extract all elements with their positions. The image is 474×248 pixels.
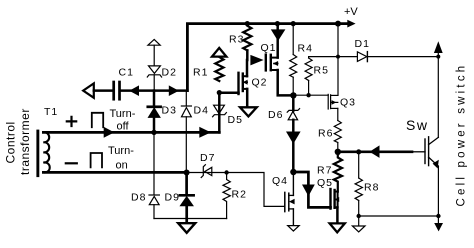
- resistor R5: [305, 58, 312, 81]
- node main mid: [290, 92, 296, 98]
- pulse glyph turn-on: [91, 153, 102, 167]
- resistor R8: [355, 178, 362, 201]
- node D6 bottom junction: [290, 169, 296, 175]
- +V arrow: [347, 20, 355, 28]
- diode D1: [357, 52, 366, 62]
- node B R8 top: [356, 149, 361, 154]
- svg-text:on: on: [116, 160, 128, 172]
- wire Q3 source to R6: [337, 108, 339, 120]
- ground hollow arrow below Q5: [330, 223, 345, 232]
- transformer T1 core: [36, 130, 39, 178]
- wire Q5 source down: [336, 207, 339, 223]
- node D1 junction: [336, 55, 340, 59]
- wire R3 to arrow node: [246, 50, 249, 60]
- wire plus line: [43, 131, 219, 134]
- ground hollow arrow below Q2: [240, 107, 257, 116]
- flow arrow down D6 chain: [286, 132, 301, 144]
- wire D8 column: [153, 132, 155, 194]
- node A: [335, 149, 341, 155]
- svg-text:R1: R1: [193, 67, 208, 79]
- IGBT Sw: [424, 139, 426, 164]
- wire +V column down: [337, 24, 339, 96]
- wire D1 line: [338, 56, 438, 58]
- wire D4 down to minus node: [185, 117, 187, 173]
- svg-text:Q5: Q5: [317, 177, 333, 189]
- flow arrow right on C1 line: [169, 85, 179, 96]
- node minus line junction: [184, 170, 190, 176]
- svg-text:Q4: Q4: [272, 175, 288, 187]
- svg-text:Turn-: Turn-: [108, 145, 134, 157]
- wire Q2 drain up: [246, 60, 249, 76]
- node R8 bottom: [357, 214, 361, 218]
- wire R5 to gate line: [308, 81, 310, 96]
- wire R8 column: [358, 152, 360, 178]
- svg-text:D5: D5: [228, 114, 243, 126]
- wire R5 top: [309, 57, 338, 58]
- svg-text:C1: C1: [119, 67, 134, 79]
- diode D6 chain from node mid: [292, 95, 295, 110]
- flow arrow down Q1 drain: [271, 29, 286, 41]
- flow arrow right Q1 gate: [250, 55, 263, 66]
- node R5 bottom: [306, 93, 310, 97]
- transistor Q3: [327, 94, 329, 109]
- wire D9 down: [185, 206, 188, 223]
- pulse glyph turn-off: [92, 113, 103, 127]
- transistor Q4: [284, 192, 286, 211]
- flow arrow left IGBT gate: [370, 145, 380, 158]
- resistor R4: [290, 55, 297, 78]
- svg-text:D2: D2: [162, 67, 177, 79]
- svg-text:Turn-: Turn-: [110, 108, 136, 120]
- terminal up arrow right: [437, 52, 439, 57]
- terminal hollow up arrow above D2: [148, 39, 160, 45]
- node R2 top: [224, 170, 228, 174]
- svg-text:Q1: Q1: [261, 42, 277, 54]
- transistor Q1: [265, 55, 267, 71]
- svg-text:D8: D8: [131, 192, 146, 204]
- svg-text:D9: D9: [165, 192, 180, 204]
- svg-text:+V: +V: [344, 6, 358, 18]
- wire R8 down: [358, 201, 360, 226]
- wire D2 to D3: [153, 75, 155, 91]
- label Control transformer: [4, 108, 33, 175]
- capacitor C1: [112, 82, 115, 99]
- wire rail to R4: [292, 24, 294, 55]
- label Turn-off: [110, 108, 136, 133]
- svg-text:D1: D1: [355, 38, 370, 50]
- svg-text:Control: Control: [4, 121, 18, 163]
- resistor R7: [334, 155, 342, 192]
- label Turn-on: [108, 145, 134, 172]
- wire D8 down: [153, 205, 155, 219]
- flow arrow left on C1 line: [129, 85, 139, 96]
- transistor Q2: [237, 73, 239, 94]
- terminal hollow up arrow above R1: [212, 48, 226, 57]
- node D1 right: [436, 55, 440, 59]
- wire minus line: [43, 171, 186, 174]
- svg-text:R6: R6: [318, 128, 333, 140]
- wire R6 to node A: [337, 143, 339, 152]
- diode D7 zener: [205, 167, 212, 175]
- wire gate feed IGBT: [338, 150, 412, 153]
- diode D3: [148, 105, 161, 108]
- label plus: [67, 117, 76, 126]
- wire top rail: [187, 24, 347, 91]
- terminal hollow left arrow: [83, 83, 94, 97]
- wire R4 to node: [292, 77, 294, 95]
- svg-text:R2: R2: [232, 189, 247, 201]
- resistor R3: [243, 24, 251, 51]
- node R1 bottom: [217, 90, 222, 95]
- diode D8: [149, 194, 159, 196]
- wire Q2 source down: [246, 89, 249, 107]
- resistor R6: [334, 121, 341, 143]
- wire C1 line: [94, 89, 113, 92]
- svg-text:Q2: Q2: [252, 77, 268, 89]
- node rail Q1 column: [275, 21, 280, 26]
- wire Q4 drain: [292, 172, 294, 195]
- node rail R4: [291, 21, 296, 26]
- svg-text:D7: D7: [200, 152, 215, 164]
- node rail at +V column: [335, 21, 341, 27]
- wire bottom right return: [359, 215, 439, 217]
- wire Q1 drain up to rail: [276, 24, 279, 58]
- flow arrow right on plus line 1: [104, 127, 115, 138]
- svg-text:R8: R8: [364, 182, 379, 194]
- svg-text:T1: T1: [44, 106, 58, 118]
- svg-text:transformer: transformer: [18, 108, 32, 175]
- resistor R2: [223, 173, 230, 219]
- wire D3 to plus line: [153, 117, 156, 132]
- transformer T1 winding: [43, 132, 49, 172]
- svg-text:R5: R5: [314, 65, 329, 77]
- svg-text:Q3: Q3: [340, 97, 356, 109]
- diode D9: [185, 173, 188, 195]
- wire Q5 gate feed: [293, 172, 308, 184]
- ground hollow arrow below Q4: [288, 226, 300, 231]
- diode D4: [181, 105, 191, 107]
- svg-text:Cell power switch: Cell power switch: [456, 63, 468, 207]
- node emitter line: [436, 214, 440, 218]
- svg-text:R4: R4: [298, 43, 313, 55]
- svg-text:D6: D6: [268, 109, 283, 121]
- wire emitter down: [437, 166, 439, 223]
- wire D6 down: [292, 120, 295, 132]
- wire D4 column: [185, 91, 187, 106]
- resistor R1: [215, 57, 223, 81]
- flow arrow down Q5 gate: [302, 185, 315, 197]
- wire Q1 source to node: [278, 70, 294, 95]
- wire D2 column upper: [153, 45, 155, 66]
- wire R1 node to plus line corner: [218, 93, 221, 133]
- svg-text:R3: R3: [229, 34, 244, 46]
- node on plus line at D3 column: [151, 130, 156, 135]
- svg-text:D3: D3: [162, 105, 177, 117]
- flow arrow right on plus line 2: [199, 127, 211, 138]
- diode D6 zener: [287, 109, 299, 113]
- diode D2: [149, 66, 161, 74]
- wire Q2 gate line: [219, 91, 238, 94]
- svg-text:R7: R7: [317, 165, 332, 177]
- wire Q5 drain-source column: [337, 192, 339, 208]
- wire Q3 gate line: [293, 94, 328, 96]
- svg-text:D4: D4: [194, 105, 209, 117]
- ground hollow arrow below R8: [352, 226, 365, 232]
- terminal filled arrow below emitter: [434, 223, 443, 231]
- svg-text:Sw: Sw: [406, 117, 428, 133]
- svg-text:off: off: [117, 121, 130, 133]
- wire bottom return: [154, 218, 227, 220]
- transistor Q5: [329, 189, 331, 209]
- diode D5 zener: [214, 105, 225, 113]
- wire Q4 source down: [292, 209, 294, 225]
- wire Q4 gate: [187, 173, 285, 207]
- label minus: [66, 162, 77, 164]
- ground hollow thick arrow below D9: [178, 223, 195, 233]
- node rail R3: [245, 21, 250, 26]
